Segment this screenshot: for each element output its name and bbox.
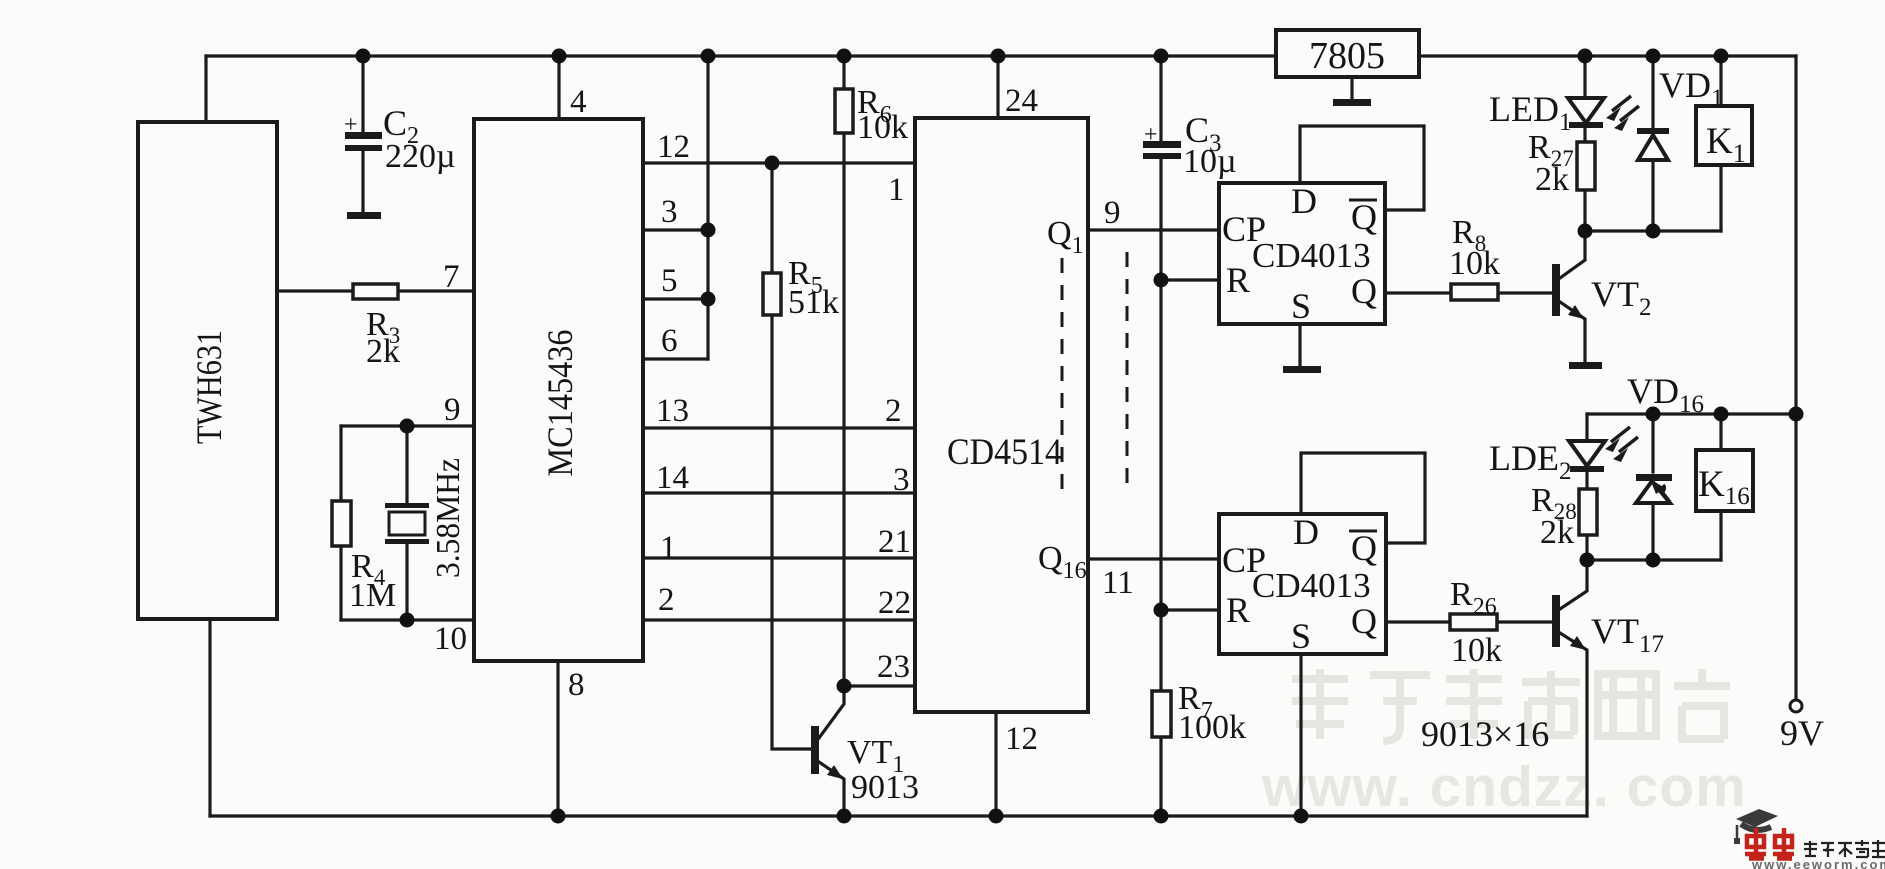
- junction R28 VT17 collector: [1580, 553, 1595, 568]
- wire MC145436 pin 9: [341, 424, 474, 427]
- wire CD4013 U1 D-Qbar feedback: [1300, 126, 1424, 210]
- wire R5 branch from pin12 net to VT1 base: [772, 163, 812, 749]
- wire 7805 ground stub: [1350, 77, 1353, 98]
- junction pin24 on rail: [991, 49, 1006, 64]
- wire CD4514 Q16 pin 11 to CD4013 CP: [1088, 557, 1219, 560]
- junction C3 on rail: [1154, 49, 1169, 64]
- svg-text:10k: 10k: [857, 109, 908, 146]
- svg-text:S: S: [1291, 286, 1311, 326]
- wire R6 branch from rail to pin 23 node: [842, 56, 845, 686]
- wire VT2 emitter to ground: [1560, 302, 1585, 362]
- junction R5 top node: [765, 156, 780, 171]
- 9V terminal circle: [1790, 700, 1802, 712]
- wire MC145436 pin 3: [643, 228, 708, 231]
- svg-text:2: 2: [885, 393, 902, 429]
- dashed expansion line inside CD4514: [1061, 258, 1064, 492]
- wire LED2 branch: [1585, 414, 1588, 560]
- wire CD4013 U2 R pin: [1161, 608, 1219, 611]
- junction pin 23 VT1 collector node: [837, 679, 852, 694]
- wire VT1 emitter to ground rail: [819, 762, 844, 816]
- svg-text:4: 4: [570, 84, 587, 120]
- svg-text:220µ: 220µ: [385, 138, 456, 175]
- junction pin 3 node: [701, 223, 716, 238]
- junction VD17 top on VD16 line: [1646, 407, 1661, 422]
- svg-text:51k: 51k: [788, 284, 839, 321]
- svg-text:CD4013: CD4013: [1252, 566, 1371, 605]
- svg-text:24: 24: [1005, 83, 1038, 119]
- ground bar under 7805: [1333, 99, 1371, 106]
- svg-text:8: 8: [568, 667, 585, 703]
- wire bottom ground rail: [210, 814, 1587, 817]
- svg-text:12: 12: [657, 129, 690, 165]
- wire MC145436 pin 1 to CD4514 pin 21: [643, 556, 915, 559]
- LED1 cathode bar: [1569, 122, 1603, 128]
- svg-text:5: 5: [661, 263, 678, 299]
- wire MC145436 pin 12 to CD4514 pin 1: [643, 161, 915, 164]
- wire CD4013 U1 R pin: [1161, 278, 1219, 281]
- wire K16 branch: [1719, 414, 1722, 560]
- svg-text:2: 2: [658, 582, 675, 618]
- svg-text:D: D: [1291, 181, 1317, 221]
- capacitor C2 negative end bar: [347, 212, 381, 219]
- resistor R5 body: [763, 273, 781, 315]
- svg-text:1: 1: [888, 172, 905, 208]
- junction R27 VT2 collector: [1578, 224, 1593, 239]
- wire MC145436 pin 5: [643, 297, 708, 300]
- svg-text:VD16: VD16: [1627, 371, 1704, 418]
- svg-text:1: 1: [660, 530, 677, 566]
- svg-text:1M: 1M: [349, 577, 396, 614]
- wire top rail drop to TWH631: [204, 56, 207, 122]
- logo graduation cap: [1736, 809, 1778, 827]
- diode VD1 cathode bar: [1637, 128, 1669, 134]
- svg-text:R: R: [1226, 260, 1250, 300]
- wire MC145436 pin 2 to CD4514 pin 22: [643, 618, 915, 621]
- wire CD4514 Q1 pin 9 to CD4013 CP: [1088, 228, 1219, 231]
- resistor R8 body: [1451, 284, 1498, 300]
- junction VT1 emitter ground rail: [837, 809, 852, 824]
- svg-text:10k: 10k: [1451, 632, 1502, 669]
- wire CD4013 U2 S to ground rail: [1299, 654, 1302, 816]
- junction C2 on rail: [356, 49, 371, 64]
- wire CD4514 pin 12 to ground rail: [994, 712, 997, 816]
- junction crystal pin 10 node: [400, 613, 415, 628]
- wire CD4514 pin 24: [996, 56, 999, 118]
- transistor VT17 emitter arrow: [1570, 636, 1586, 650]
- svg-text:www. cndzz. com: www. cndzz. com: [1261, 755, 1747, 819]
- svg-text:R: R: [1226, 590, 1250, 630]
- relay K16 box: [1696, 450, 1753, 511]
- junction VD1 on rail: [1646, 49, 1661, 64]
- wire MC145436 pin 4: [557, 56, 560, 119]
- IC U1 CD4013 box: [1219, 183, 1385, 324]
- resistor R6 body: [835, 89, 853, 133]
- wire LED1 branch: [1583, 56, 1586, 231]
- svg-text:www.eeworm.com: www.eeworm.com: [1751, 857, 1885, 869]
- svg-text:2k: 2k: [1535, 161, 1569, 198]
- wire node VT2 collector bus: [1585, 229, 1721, 232]
- capacitor C3 plates: [1143, 141, 1181, 148]
- svg-text:10k: 10k: [1449, 245, 1500, 282]
- svg-text:10µ: 10µ: [1183, 143, 1237, 180]
- svg-text:2k: 2k: [1540, 514, 1574, 551]
- resistor R28 body: [1579, 489, 1597, 535]
- transistor VT1 base bar: [811, 726, 819, 774]
- watermark pseudo hanzi row: [1292, 669, 1730, 741]
- junction C3 to U1 R: [1154, 273, 1169, 288]
- transistor VT17 base bar: [1552, 595, 1560, 647]
- svg-text:Q: Q: [1351, 528, 1377, 568]
- wire VT2 collector: [1560, 231, 1585, 278]
- junction K16 top on VD16 line: [1714, 407, 1729, 422]
- capacitor C2 plates: [345, 132, 382, 139]
- svg-text:3: 3: [893, 462, 910, 498]
- wire R4 crystal left bracket: [339, 426, 342, 620]
- junction VD1 bottom: [1646, 224, 1661, 239]
- svg-text:S: S: [1291, 616, 1311, 656]
- wire VD16 supply line: [1587, 412, 1796, 415]
- wire right vertical rail to 9V terminal: [1794, 56, 1797, 699]
- junction crystal pin 9 node: [400, 419, 415, 434]
- IC U6 7805 regulator box: [1276, 30, 1419, 77]
- wire node VT17 collector bus: [1587, 558, 1721, 561]
- svg-text:11: 11: [1102, 565, 1134, 601]
- svg-text:14: 14: [656, 460, 689, 496]
- resistor R7 body: [1152, 691, 1171, 737]
- svg-text:3.58MHz: 3.58MHz: [430, 458, 467, 578]
- junction pins356 branch on rail: [701, 49, 716, 64]
- svg-text:9: 9: [1104, 195, 1121, 231]
- wire MC145436 pin 13 to CD4514 pin 2: [643, 426, 915, 429]
- junction pin12 ground rail: [989, 809, 1004, 824]
- svg-text:Q: Q: [1351, 601, 1377, 641]
- svg-text:3: 3: [661, 194, 678, 230]
- IC U3 TWH631 box: [138, 122, 277, 619]
- wire CD4013 U1 S to ground: [1298, 324, 1301, 366]
- resistor R27 body: [1577, 142, 1595, 190]
- wire CD4013 U2 Q to R26 to VT17 base: [1386, 620, 1553, 623]
- transistor VT2 emitter ground: [1569, 362, 1602, 369]
- wire K1 branch: [1719, 56, 1722, 231]
- LED1 triangle: [1568, 98, 1604, 123]
- svg-text:+: +: [1144, 122, 1158, 148]
- wire vertical from rail to pins 3-5-6: [706, 56, 709, 359]
- svg-text:9013: 9013: [851, 769, 919, 806]
- transistor VT1 emitter arrow: [827, 765, 843, 779]
- diode VD1 triangle: [1638, 135, 1668, 160]
- logo chongchong red characters: [1745, 828, 1794, 859]
- dashed expansion line right of CD4514: [1126, 252, 1129, 492]
- svg-text:13: 13: [656, 393, 689, 429]
- svg-text:21: 21: [878, 524, 911, 560]
- wire crystal stem: [405, 426, 408, 620]
- svg-text:CD4514: CD4514: [947, 432, 1062, 473]
- svg-text:D: D: [1293, 512, 1319, 552]
- svg-text:9V: 9V: [1780, 713, 1824, 753]
- wire MC145436 pin 7 to R3 to TWH631: [277, 289, 474, 292]
- svg-text:VD1: VD1: [1659, 65, 1724, 112]
- svg-text:TWH631: TWH631: [189, 330, 229, 444]
- wire CD4514 pin 23: [844, 684, 915, 687]
- wire MC145436 pin 6: [643, 357, 708, 360]
- ground bar under CD4013 U1 S: [1283, 366, 1321, 373]
- wire MC145436 pin 8 to ground rail: [556, 661, 559, 816]
- wire VT1 collector: [819, 686, 844, 738]
- svg-text:MC145436: MC145436: [540, 330, 580, 477]
- svg-text:VT17: VT17: [1591, 611, 1664, 658]
- crystal X1 body: [389, 512, 425, 535]
- svg-text:9013×16: 9013×16: [1421, 714, 1549, 754]
- wire CD4013 U2 D-Qbar feedback: [1301, 453, 1425, 543]
- diode VD17 TVS bar: [1636, 474, 1672, 481]
- LED2 cathode bar: [1570, 466, 1604, 472]
- IC U5 CD4514 box: [915, 118, 1088, 712]
- junction pin4 on rail: [552, 49, 567, 64]
- svg-text:9: 9: [444, 392, 461, 428]
- svg-text:22: 22: [878, 585, 911, 621]
- LED2 triangle: [1569, 441, 1605, 466]
- IC U4 MC145436 box: [474, 119, 643, 661]
- wire +9V top rail: [206, 54, 1796, 57]
- diode VD17 TVS triangle: [1636, 481, 1670, 503]
- crystal X1 3.58MHz plates: [385, 503, 429, 508]
- svg-text:CD4013: CD4013: [1252, 236, 1371, 275]
- svg-text:23: 23: [877, 649, 910, 685]
- junction VD16 line on right rail: [1789, 407, 1804, 422]
- wire C3 R7 vertical net: [1159, 56, 1162, 816]
- junction VD17 bottom: [1646, 553, 1661, 568]
- junction C3 to U2 R: [1154, 603, 1169, 618]
- svg-text:7: 7: [443, 259, 460, 295]
- transistor VT2 base bar: [1552, 264, 1560, 316]
- svg-text:100k: 100k: [1178, 709, 1246, 746]
- wire VD1 branch: [1651, 56, 1654, 231]
- resistor R3 body: [353, 284, 398, 299]
- svg-text:7805: 7805: [1309, 35, 1385, 77]
- junction pin 5 node: [701, 292, 716, 307]
- svg-text:Q: Q: [1351, 271, 1377, 311]
- svg-text:Q: Q: [1351, 197, 1377, 237]
- wire MC145436 pin 10: [341, 618, 474, 621]
- resistor R4 body: [332, 501, 351, 546]
- junction LED1 on rail: [1578, 49, 1593, 64]
- junction R7 ground rail: [1154, 809, 1169, 824]
- wire CD4013 U1 Q to R8 to VT2 base: [1385, 291, 1553, 294]
- LED2 arrows: [1611, 427, 1638, 452]
- svg-text:+: +: [344, 112, 358, 138]
- wire VT17 collector: [1560, 560, 1587, 609]
- LED1 arrows: [1612, 96, 1639, 121]
- svg-text:VT2: VT2: [1591, 274, 1652, 321]
- transistor VT2 emitter arrow: [1568, 305, 1584, 319]
- wire TWH631 bottom to ground rail: [208, 619, 211, 816]
- svg-text:LDE2: LDE2: [1489, 438, 1571, 485]
- junction R6 on rail: [837, 49, 852, 64]
- svg-text:12: 12: [1005, 721, 1038, 757]
- logo dianzi xiazaizhan dark characters: [1804, 840, 1885, 857]
- wire VT17 emitter to ground rail: [1560, 633, 1587, 816]
- wire VD17 zener branch: [1651, 414, 1654, 560]
- svg-text:6: 6: [661, 323, 678, 359]
- wire MC145436 pin 14 to CD4514 pin 3: [643, 491, 915, 494]
- junction U2 S ground rail: [1294, 809, 1309, 824]
- IC U2 CD4013 box: [1219, 514, 1386, 654]
- wire C2 stem: [361, 56, 364, 213]
- junction pin8 ground rail: [551, 809, 566, 824]
- svg-text:10: 10: [434, 621, 467, 657]
- relay K1 box: [1696, 106, 1752, 165]
- junction K1 on rail: [1714, 49, 1729, 64]
- resistor R26 body: [1450, 614, 1497, 630]
- svg-text:2k: 2k: [366, 333, 400, 370]
